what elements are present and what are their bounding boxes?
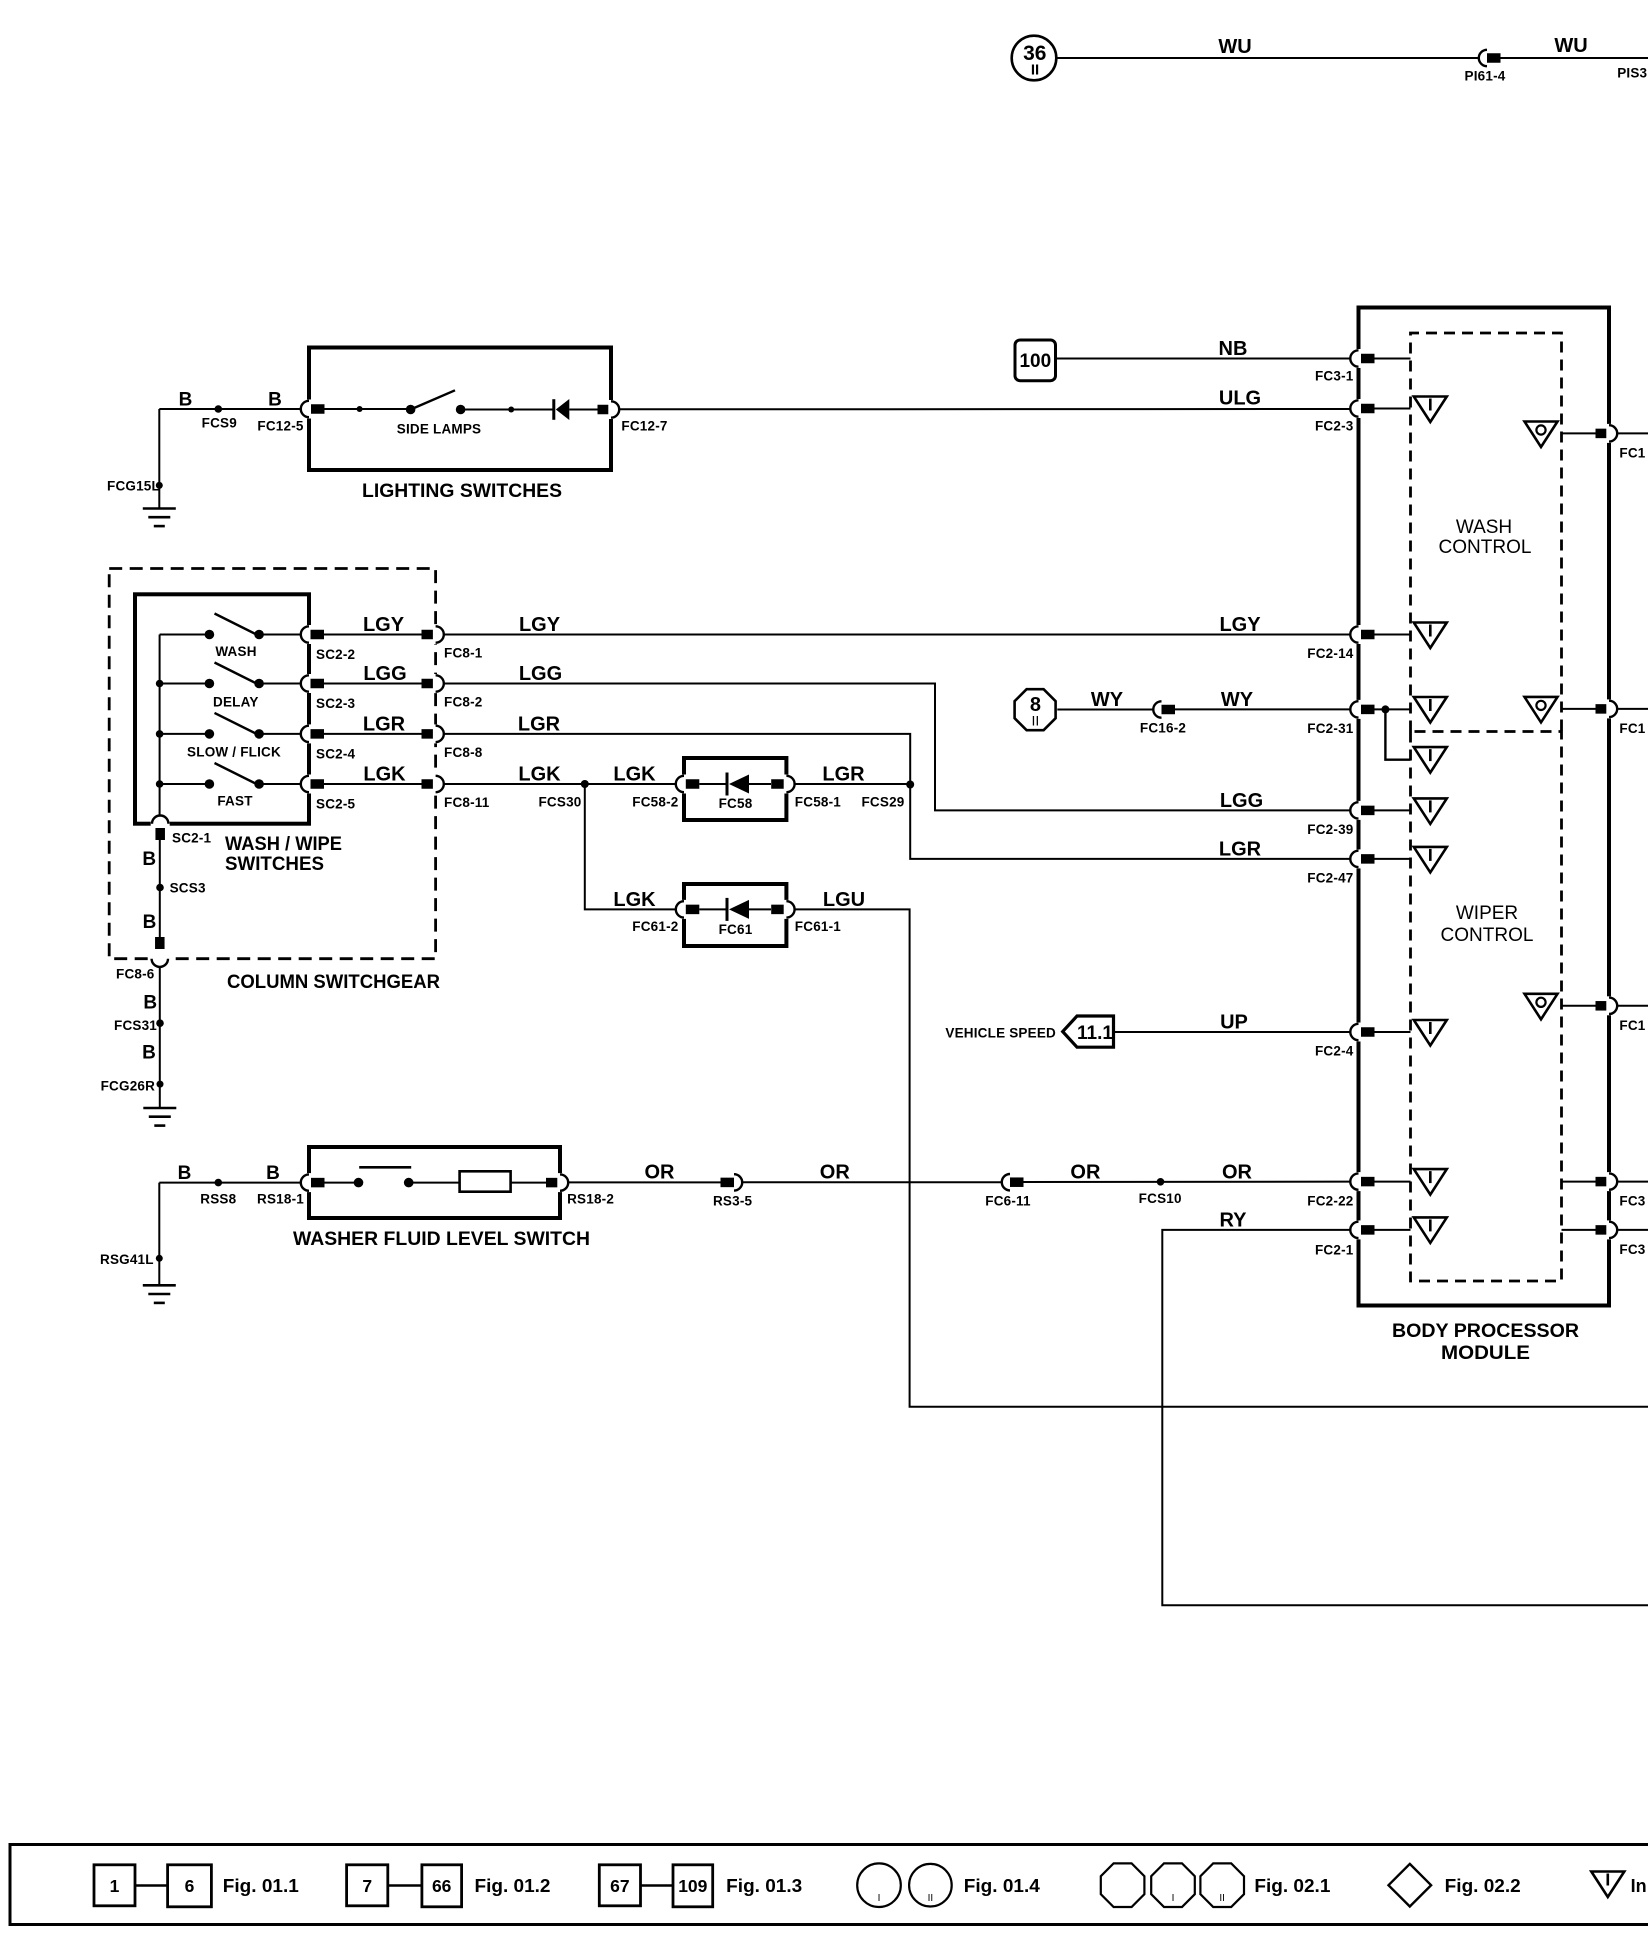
svg-text:LGY: LGY <box>363 614 405 636</box>
svg-text:OR: OR <box>1222 1162 1253 1184</box>
wire WU from node 36 to PI61-4 <box>1056 57 1479 59</box>
connector FC2-47 on BPM <box>1356 849 1361 868</box>
wire LGG from SC2-3 to FC8-2 <box>324 683 423 685</box>
input triangle at FC2-3 <box>1414 397 1447 423</box>
svg-text:B: B <box>142 1043 156 1064</box>
svg-text:MODULE: MODULE <box>1441 1343 1530 1364</box>
wire inside BPM from FC2-39 <box>1375 809 1411 811</box>
svg-text:FC61-1: FC61-1 <box>795 919 842 934</box>
svg-text:LGK: LGK <box>363 764 406 786</box>
svg-text:SC2-3: SC2-3 <box>316 696 356 711</box>
wire WY from octagon 8 to FC16-2 <box>1057 709 1153 711</box>
wire WU from PI61-4 to PIS3 (off page) <box>1501 57 1648 59</box>
svg-text:WU: WU <box>1554 35 1587 57</box>
connector symbol 8 (octagon II) <box>1015 689 1056 730</box>
legend dash <box>388 1884 422 1886</box>
svg-text:FC2-14: FC2-14 <box>1307 646 1354 661</box>
diode FC61 internal wiring <box>699 908 727 910</box>
switch WASH <box>160 634 210 636</box>
svg-text:RS18-2: RS18-2 <box>567 1192 614 1207</box>
connector FC1 on BPM right edge <box>1596 429 1610 439</box>
wire LGR from FC8-8 to FCS29 <box>444 734 911 785</box>
svg-text:LGU: LGU <box>823 889 865 911</box>
svg-text:DELAY: DELAY <box>213 695 259 710</box>
svg-text:FC1: FC1 <box>1619 445 1645 460</box>
svg-text:SWITCHES: SWITCHES <box>225 854 324 875</box>
svg-text:RS18-1: RS18-1 <box>257 1192 304 1207</box>
svg-text:67: 67 <box>610 1876 629 1896</box>
svg-text:RY: RY <box>1219 1209 1247 1231</box>
side lamps switch wiring <box>325 408 411 410</box>
side lamps switch <box>406 405 416 415</box>
wire RY from FC2-1 off page right <box>1162 1230 1648 1605</box>
svg-text:SC2-5: SC2-5 <box>316 797 356 812</box>
connector FC12-7 at box edge <box>598 405 612 415</box>
svg-text:FC1: FC1 <box>1619 1018 1645 1033</box>
svg-text:FCG26R: FCG26R <box>101 1079 156 1094</box>
svg-text:WU: WU <box>1218 36 1251 58</box>
svg-text:B: B <box>178 1163 192 1184</box>
connector FC3-1 on BPM <box>1356 349 1361 368</box>
ground FCG26R symbol <box>143 1107 176 1110</box>
svg-text:FC6-11: FC6-11 <box>985 1194 1031 1209</box>
svg-text:FC58-1: FC58-1 <box>795 795 842 810</box>
svg-text:SC2-4: SC2-4 <box>316 746 356 761</box>
wire from output triangle to FC1 connector <box>1562 432 1597 434</box>
svg-text:Fig. 01.4: Fig. 01.4 <box>964 1876 1040 1896</box>
svg-text:WASH: WASH <box>1456 517 1512 538</box>
svg-text:LGR: LGR <box>363 713 406 735</box>
svg-text:FC2-1: FC2-1 <box>1315 1242 1354 1257</box>
wire B from FC8-6 to ground FCG26R <box>159 967 161 1109</box>
wire LGR from FC58-1 to FCS29 <box>794 783 910 785</box>
legend box 67 <box>599 1865 640 1906</box>
svg-text:SCS3: SCS3 <box>170 881 206 896</box>
svg-text:LGK: LGK <box>518 764 561 786</box>
svg-text:B: B <box>143 993 157 1014</box>
wire from output triangle to FC1 connector <box>1562 708 1597 710</box>
wire OR from FC6-11 to FC2-22 <box>1024 1181 1351 1183</box>
switch DELAY <box>160 683 210 685</box>
ground FCG15L <box>158 409 160 508</box>
svg-text:WASHER FLUID LEVEL SWITCH: WASHER FLUID LEVEL SWITCH <box>293 1229 590 1250</box>
svg-text:B: B <box>266 1163 280 1184</box>
splice FCS31 <box>156 1019 164 1027</box>
legend box 6 <box>168 1865 212 1907</box>
svg-text:LGG: LGG <box>363 663 406 685</box>
connector FC8-8 at dashed box edge <box>422 729 436 739</box>
svg-text:LIGHTING SWITCHES: LIGHTING SWITCHES <box>362 481 562 502</box>
svg-text:WASH / WIPE: WASH / WIPE <box>225 834 342 855</box>
svg-text:FC8-6: FC8-6 <box>116 967 155 982</box>
wire inside BPM from FC2-22 <box>1375 1181 1411 1183</box>
diode FC58 internal wiring <box>699 783 727 785</box>
wire B to lighting switches <box>159 408 301 410</box>
connector FC6-11 <box>1002 1174 1010 1190</box>
svg-text:II: II <box>1032 713 1040 729</box>
connector FC2-14 on BPM <box>1356 625 1361 644</box>
splice FCS9 <box>215 405 223 413</box>
svg-text:COLUMN SWITCHGEAR: COLUMN SWITCHGEAR <box>227 972 440 993</box>
svg-text:FC12-7: FC12-7 <box>621 419 667 434</box>
legend box 1 <box>94 1865 135 1906</box>
svg-text:FC8-8: FC8-8 <box>444 745 483 760</box>
connector FC61-2 <box>681 900 686 919</box>
wash control dashed box <box>1411 333 1562 732</box>
wire LGK branch from FCS30 to FC61-2 <box>585 784 676 909</box>
svg-text:FC2-31: FC2-31 <box>1307 721 1354 736</box>
legend octagon II <box>1200 1863 1244 1907</box>
svg-text:WY: WY <box>1221 689 1254 711</box>
wash/wipe switches box <box>135 594 309 823</box>
legend octagon <box>1101 1863 1145 1907</box>
output triangle (wash relay) <box>1525 697 1558 723</box>
svg-text:FCS9: FCS9 <box>202 416 237 431</box>
wire ULG from FC12-7 to FC2-3 <box>619 408 1350 410</box>
ground RSG41L <box>158 1183 160 1285</box>
wire LGR from SC2-4 to FC8-8 <box>324 733 423 735</box>
connector SC2-5 at wash/wipe box edge <box>306 775 311 794</box>
svg-text:II: II <box>928 1893 934 1904</box>
float switch blade <box>359 1166 411 1169</box>
svg-text:Fig. 01.2: Fig. 01.2 <box>475 1876 551 1896</box>
splice SCS3 <box>156 884 164 892</box>
connector RS3-5 <box>721 1178 735 1188</box>
column switchgear dashed box <box>109 569 435 959</box>
svg-text:FC2-3: FC2-3 <box>1315 419 1354 434</box>
input triangle at FC2-4 <box>1414 1020 1447 1046</box>
svg-text:1: 1 <box>110 1876 120 1896</box>
connector SC2-3 at wash/wipe box edge <box>306 674 311 693</box>
input triangle at FC2-47 <box>1414 847 1447 873</box>
svg-text:PIS3: PIS3 <box>1617 66 1647 81</box>
float switch wiring <box>325 1182 359 1184</box>
connector FC1 on BPM right edge <box>1596 704 1610 714</box>
svg-text:FC8-1: FC8-1 <box>444 646 483 661</box>
svg-text:B: B <box>143 912 157 933</box>
input triangle at FC2-22 <box>1414 1169 1447 1195</box>
connector FC58-2 <box>681 775 686 794</box>
svg-text:FC58: FC58 <box>719 796 753 811</box>
body processor module box <box>1359 308 1610 1306</box>
svg-text:FCS10: FCS10 <box>1139 1191 1182 1206</box>
resistor in washer switch <box>460 1171 511 1191</box>
svg-text:LGR: LGR <box>822 764 865 786</box>
wire OR from RS18-2 to RS3-5 <box>568 1181 722 1183</box>
connector FC8-11 at dashed box edge <box>422 779 436 789</box>
legend input triangle <box>1591 1872 1624 1898</box>
svg-text:II: II <box>1031 62 1039 79</box>
svg-text:FCS29: FCS29 <box>861 795 904 810</box>
connector FC2-1 on BPM <box>1356 1220 1361 1239</box>
svg-text:11.1: 11.1 <box>1077 1023 1113 1044</box>
connector SC2-1 at wash/wipe box bottom <box>151 821 170 826</box>
svg-text:UP: UP <box>1220 1012 1248 1034</box>
output triangle (wash pump) <box>1525 422 1558 448</box>
diode pack FC61 box <box>684 884 786 946</box>
wire from output triangle to FC1 connector <box>1562 1005 1597 1007</box>
svg-text:FCS31: FCS31 <box>114 1018 157 1033</box>
node FCG26R <box>157 1081 164 1088</box>
svg-text:FC8-11: FC8-11 <box>444 795 490 810</box>
svg-text:LGG: LGG <box>1220 790 1263 812</box>
svg-text:II: II <box>1219 1893 1225 1904</box>
svg-text:SC2-2: SC2-2 <box>316 647 355 662</box>
wire B from SC2-1 down to FC8-6 <box>159 838 161 937</box>
wire inside BPM from FC2-3 <box>1375 408 1411 410</box>
connector FC12-5 at box edge <box>306 400 311 419</box>
svg-text:FC61: FC61 <box>719 922 753 937</box>
svg-text:B: B <box>142 849 156 870</box>
svg-text:FAST: FAST <box>217 794 253 809</box>
switch bus wire (left) <box>159 635 161 816</box>
wire WY from FC16-2 to FC2-31 <box>1175 708 1350 710</box>
diode in lighting switches box <box>552 399 555 420</box>
wire LGU from FC61-1 off page right <box>794 909 1648 1406</box>
svg-text:SIDE LAMPS: SIDE LAMPS <box>397 422 482 437</box>
wire LGK from FC8-11 to FCS30 <box>444 783 585 785</box>
svg-text:LGR: LGR <box>518 713 561 735</box>
connector RS18-2 at box edge <box>546 1178 560 1188</box>
input triangle below FC2-31 <box>1414 747 1447 773</box>
input triangle at FC2-39 <box>1414 798 1447 824</box>
wire LGK from FCS30 to FC58-2 <box>585 783 676 785</box>
legend box 109 <box>673 1865 713 1907</box>
svg-text:100: 100 <box>1019 351 1051 372</box>
svg-text:LGK: LGK <box>613 889 656 911</box>
connector FC2-3 on BPM <box>1356 399 1361 418</box>
wire LGY from SC2-2 to FC8-1 <box>324 634 423 636</box>
connector FC58-1 <box>771 779 785 789</box>
wire LGG from FC8-2 to FC2-39 <box>444 684 1351 811</box>
connector FC8-1 at dashed box edge <box>422 630 436 640</box>
legend circle I <box>857 1863 901 1907</box>
legend dash <box>135 1884 168 1886</box>
wire inside BPM from FC3-1 <box>1375 358 1411 360</box>
svg-text:FC16-2: FC16-2 <box>1140 721 1186 736</box>
diode pack FC58 box <box>684 758 786 820</box>
wire to FC3 connector on BPM right edge <box>1562 1229 1597 1231</box>
node 36 (circle connector symbol II) <box>1012 36 1057 81</box>
svg-text:FCG15L: FCG15L <box>107 479 160 494</box>
svg-text:7: 7 <box>362 1876 372 1896</box>
legend bar <box>10 1845 1648 1925</box>
legend box 66 <box>422 1865 462 1907</box>
diode FC58 <box>726 773 729 796</box>
wire inside BPM from FC2-14 <box>1375 634 1411 636</box>
svg-text:BODY PROCESSOR: BODY PROCESSOR <box>1392 1321 1579 1342</box>
input triangle at FC2-1 <box>1414 1217 1447 1243</box>
wire inside BPM from FC2-1 <box>1375 1229 1411 1231</box>
junction at FC2-31 <box>1381 705 1389 713</box>
svg-text:In: In <box>1631 1876 1647 1896</box>
svg-text:Fig. 01.3: Fig. 01.3 <box>726 1876 802 1896</box>
legend dash <box>641 1884 674 1886</box>
connector FC8-6 at dashed box bottom edge <box>155 937 165 949</box>
wire branch from FC2-31 junction down <box>1385 709 1410 759</box>
svg-text:FC3: FC3 <box>1619 1242 1645 1257</box>
legend box 7 <box>347 1865 388 1906</box>
svg-text:LGK: LGK <box>613 764 656 786</box>
svg-text:RS3-5: RS3-5 <box>713 1194 753 1209</box>
wire OR from RS3-5 to FC6-11 <box>742 1181 1002 1183</box>
svg-text:FCS30: FCS30 <box>538 795 581 810</box>
svg-text:ULG: ULG <box>1219 388 1261 410</box>
splice RSS8 <box>215 1179 223 1187</box>
svg-text:OR: OR <box>645 1162 676 1184</box>
wire B to washer fluid level switch <box>159 1182 301 1184</box>
svg-text:I: I <box>878 1893 881 1904</box>
svg-text:FC3-1: FC3-1 <box>1315 369 1354 384</box>
svg-text:OR: OR <box>1070 1162 1101 1184</box>
svg-text:FC61-2: FC61-2 <box>632 919 678 934</box>
wire inside BPM from FC2-4 <box>1375 1031 1411 1033</box>
svg-text:LGY: LGY <box>519 614 561 636</box>
connector FC2-31 on BPM <box>1356 700 1361 719</box>
svg-text:SLOW / FLICK: SLOW / FLICK <box>187 745 281 760</box>
svg-text:SC2-1: SC2-1 <box>172 831 212 846</box>
svg-text:6: 6 <box>185 1876 195 1896</box>
connector FC1 on BPM right edge <box>1596 1001 1610 1011</box>
svg-text:CONTROL: CONTROL <box>1441 925 1534 946</box>
svg-text:RSG41L: RSG41L <box>100 1252 154 1267</box>
svg-text:WIPER: WIPER <box>1456 903 1518 924</box>
diode FC61 <box>726 898 729 921</box>
svg-text:OR: OR <box>820 1162 851 1184</box>
connector FC3 on BPM right edge <box>1596 1225 1610 1235</box>
input triangle at FC2-14 <box>1414 623 1447 649</box>
svg-text:I: I <box>1172 1893 1175 1904</box>
svg-text:FC1: FC1 <box>1619 721 1645 736</box>
legend octagon I <box>1151 1863 1195 1907</box>
input triangle at FC2-31 <box>1414 697 1447 723</box>
svg-text:NB: NB <box>1219 338 1248 360</box>
fuse symbol 100 <box>1015 340 1056 381</box>
legend circle II <box>909 1864 952 1907</box>
connector SC2-2 at wash/wipe box edge <box>306 625 311 644</box>
connector SC2-4 at wash/wipe box edge <box>306 724 311 743</box>
wire LGR from FCS29 to FC2-47 <box>910 785 1350 859</box>
connector FC2-39 on BPM <box>1356 801 1361 820</box>
svg-text:FC2-22: FC2-22 <box>1307 1194 1353 1209</box>
switch SLOW / FLICK <box>160 733 210 735</box>
connector FC16-2 <box>1153 701 1161 717</box>
svg-text:FC2-47: FC2-47 <box>1307 870 1353 885</box>
wire inside BPM from FC2-47 <box>1375 858 1411 860</box>
connector RS18-1 at box edge <box>306 1173 311 1192</box>
svg-text:PI61-4: PI61-4 <box>1465 69 1506 84</box>
lighting switches box <box>309 348 611 471</box>
svg-text:VEHICLE SPEED: VEHICLE SPEED <box>945 1026 1056 1041</box>
connector FC61-1 <box>771 905 785 915</box>
svg-text:LGY: LGY <box>1219 614 1261 636</box>
svg-text:FC12-5: FC12-5 <box>257 419 304 434</box>
svg-text:FC2-39: FC2-39 <box>1307 822 1353 837</box>
svg-text:FC58-2: FC58-2 <box>632 795 678 810</box>
legend diamond <box>1389 1864 1432 1907</box>
splice FCS29 <box>906 781 914 789</box>
wire inside BPM from FC2-31 <box>1375 708 1411 710</box>
svg-text:LGR: LGR <box>1219 838 1262 860</box>
svg-text:FC2-4: FC2-4 <box>1315 1044 1354 1059</box>
connector FC2-4 on BPM <box>1356 1023 1361 1042</box>
output triangle (wiper relay) <box>1525 994 1558 1020</box>
washer fluid level switch box <box>309 1147 560 1218</box>
svg-text:Fig. 01.1: Fig. 01.1 <box>223 1876 299 1896</box>
svg-text:LGG: LGG <box>519 663 562 685</box>
svg-text:RSS8: RSS8 <box>200 1192 236 1207</box>
wire NB from 100 to FC3-1 <box>1056 358 1351 360</box>
connector FC3 on BPM right edge <box>1596 1177 1610 1187</box>
wiper control dashed box <box>1411 732 1562 1282</box>
switch FAST <box>160 783 210 785</box>
svg-text:FC8-2: FC8-2 <box>444 695 483 710</box>
wire LGY from FC8-1 to FC2-14 <box>444 634 1351 636</box>
splice FCS30 <box>581 780 589 788</box>
wire to FC3 connector on BPM right edge <box>1562 1181 1597 1183</box>
svg-text:CONTROL: CONTROL <box>1439 537 1532 558</box>
splice FCS10 <box>1157 1178 1165 1186</box>
svg-text:B: B <box>179 390 193 411</box>
connector FC8-2 at dashed box edge <box>422 679 436 689</box>
svg-text:WY: WY <box>1091 689 1124 711</box>
svg-text:WASH: WASH <box>215 644 256 659</box>
connector FC2-22 on BPM <box>1356 1172 1361 1191</box>
svg-text:Fig. 02.1: Fig. 02.1 <box>1254 1876 1330 1896</box>
svg-text:B: B <box>268 390 282 411</box>
svg-text:FC3: FC3 <box>1619 1194 1645 1209</box>
svg-text:66: 66 <box>432 1876 452 1896</box>
svg-text:109: 109 <box>678 1876 707 1896</box>
wire LGK from SC2-5 to FC8-11 <box>324 783 423 785</box>
svg-text:Fig. 02.2: Fig. 02.2 <box>1445 1876 1521 1896</box>
connector PI61-4 <box>1479 50 1487 66</box>
wire UP from 11.1 to FC2-4 <box>1114 1031 1351 1033</box>
